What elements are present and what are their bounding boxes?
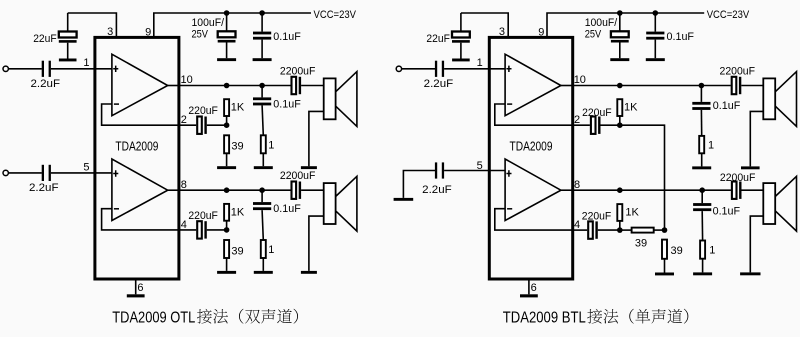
junction output/zobel (right ch1) <box>699 83 705 89</box>
ground speaker (right ch2) <box>740 272 760 275</box>
value label 2200uF (right ch2) <box>720 172 756 184</box>
wire 22uF top lead (UR) <box>460 13 462 32</box>
wire 100uF bottom lead (UL) <box>226 43 228 59</box>
ground 39 shunt (right) <box>655 273 674 276</box>
resistor 1K feedback (left ch2) <box>224 204 229 221</box>
wire input 2 to coupling cap (UL) <box>8 172 41 174</box>
svg-text:TDA2009: TDA2009 <box>115 140 158 154</box>
svg-text:22uF: 22uF <box>426 33 450 45</box>
wire 22uF top lead (UL) <box>67 13 69 32</box>
value label 1 ohm (right ch2) <box>709 244 715 256</box>
junction feedback node (left ch1) <box>224 122 230 128</box>
value label 1K (right ch1) <box>624 102 638 114</box>
wire output to zobel cap (right ch2) <box>701 190 703 203</box>
caption right latin part <box>503 309 586 326</box>
ground pin 6 (UR) <box>520 294 538 297</box>
wire op-amp A output to pin 10 (UL) <box>168 85 179 87</box>
junction output/zobel (left ch2) <box>259 187 265 193</box>
value label 220uF (right ch2) <box>582 211 612 223</box>
pin number 10 (UR) <box>574 74 586 86</box>
value label 22uF (UR) <box>426 33 450 45</box>
junction VCC rail / 100uF (UL) <box>224 10 230 16</box>
svg-text:0.1uF: 0.1uF <box>713 100 741 112</box>
value label 39 (left ch2) <box>231 245 243 257</box>
IC UL part label TDA2009 <box>115 140 158 154</box>
feedback wire op-amp B inverting input to pin 4 (UL) <box>102 209 179 230</box>
svg-text:1: 1 <box>83 57 89 69</box>
wire feedback pin to 220uF (left ch1) <box>179 124 196 126</box>
wire feedback node to BTL bridge (right ch1) <box>620 125 665 230</box>
value label 0.1uF zobel (right ch2) <box>713 205 741 217</box>
wire output to zobel cap (right ch1) <box>700 86 702 102</box>
wire 1 ohm to ground (right ch1) <box>701 153 703 166</box>
op-amp IC UL TDA2009 body <box>95 37 179 279</box>
wire 220uF to node (right ch1) <box>601 124 620 126</box>
ground pin 6 (UL) <box>127 294 145 297</box>
capacitor 22uF bootstrap (UR) <box>452 32 470 43</box>
wire zobel cap to 1 ohm (left ch2) <box>262 210 263 240</box>
junction output/1K (right ch1) <box>617 83 623 89</box>
svg-text:1: 1 <box>708 139 714 151</box>
wire zobel cap to 1 ohm (left ch1) <box>262 105 263 135</box>
svg-text:10: 10 <box>181 74 193 86</box>
caption left chinese part <box>197 309 298 324</box>
resistor 39 feedback shunt (left ch1) <box>224 135 229 153</box>
svg-text:VCC=23V: VCC=23V <box>707 9 750 21</box>
svg-text:22uF: 22uF <box>33 33 57 45</box>
capacitor 2.2uF input 2 coupling (UR) <box>435 162 444 178</box>
capacitor 0.1uF zobel (right ch2) <box>693 203 711 211</box>
capacitor 22uF bootstrap (UL) <box>59 32 77 43</box>
value label 0.1uF bypass (UL) <box>273 31 301 43</box>
op-amp ULB lower half <box>112 159 168 221</box>
wire op-amp B output to pin 8 (UL) <box>168 189 179 191</box>
IC UR part label TDA2009 <box>510 140 553 154</box>
wire pin 6 to ground (UL) <box>135 279 137 294</box>
wire pin 2 to 220uF (right ch1) <box>573 124 590 126</box>
svg-text:100uF/: 100uF/ <box>585 17 618 29</box>
svg-text:2.2uF: 2.2uF <box>422 184 452 196</box>
wire VCC rail from pin 9 (UL) <box>154 13 311 37</box>
svg-text:1: 1 <box>268 139 274 151</box>
pin number 6 (UL) <box>137 282 143 294</box>
wire 22uF bottom lead (UL) <box>67 43 69 59</box>
value label 1 ohm (left ch2) <box>268 244 274 256</box>
capacitor 220uF feedback (right ch2) <box>588 221 598 238</box>
wire coupling cap to pin 1 (UL) <box>51 68 112 70</box>
svg-text:9: 9 <box>538 27 544 39</box>
value label 0.1uF bypass (UR) <box>667 31 695 43</box>
ground 22uF (UR) <box>452 59 470 62</box>
ground 100uF (UR) <box>610 58 629 61</box>
value label 1 ohm (right ch1) <box>708 139 714 151</box>
wire grounded input 2 (UR) <box>403 171 435 198</box>
svg-text:3: 3 <box>107 26 113 38</box>
svg-text:1K: 1K <box>231 102 245 114</box>
wire feedback pin to 220uF (left ch2) <box>179 229 196 231</box>
value label 2200uF (left ch2) <box>280 170 316 182</box>
wire VCC rail from pin 9 (UR) <box>547 13 704 37</box>
ground BTL input 2 (UR) <box>394 198 414 201</box>
pin number 3 (UR) <box>499 26 505 38</box>
wire zobel cap to 1 ohm (right ch2) <box>701 211 703 240</box>
svg-text:1: 1 <box>268 244 274 256</box>
ground 1 ohm (right ch1) <box>692 166 711 169</box>
pin number 8 (UR) <box>574 179 580 191</box>
ground 22uF (UL) <box>59 59 77 62</box>
value label 100uF/ (UL) <box>192 17 225 29</box>
caption left latin part <box>112 309 195 326</box>
wire 1 ohm to ground (left ch2) <box>262 258 264 271</box>
junction output/zobel (right ch2) <box>699 187 705 193</box>
value label 22uF (UL) <box>33 33 57 45</box>
ground 39 resistor (left ch2) <box>217 271 236 274</box>
value label 2.2uF input 2 (UL) <box>29 182 59 194</box>
wire 0.1uF bypass bottom lead (UL) <box>261 40 263 59</box>
svg-text:220uF: 220uF <box>188 210 218 222</box>
pin number 4 (UL) <box>181 219 187 231</box>
capacitor 2.2uF input 2 coupling (UL) <box>42 165 51 181</box>
value label 220uF (left ch1) <box>188 105 218 117</box>
capacitor 100uF/25V supply filter (UL) <box>218 31 236 42</box>
pin number 1 (UL) <box>83 57 89 69</box>
value label 1 ohm (left ch1) <box>268 139 274 151</box>
ground 1 ohm (left ch1) <box>254 166 273 169</box>
capacitor 2200uF output coupling (left ch2) <box>292 182 302 199</box>
caption right chinese part <box>587 309 688 324</box>
svg-text:10: 10 <box>574 74 586 86</box>
resistor 39 feedback shunt (left ch2) <box>224 240 229 258</box>
junction VCC rail / 0.1uF (UL) <box>259 10 265 16</box>
capacitor 0.1uF zobel (left ch2) <box>253 202 271 210</box>
pin number 5 (UL) <box>83 161 89 173</box>
value label 1K (left ch1) <box>231 102 245 114</box>
svg-text:VCC=23V: VCC=23V <box>314 9 357 21</box>
capacitor 0.1uF zobel (right ch1) <box>692 102 710 110</box>
wire coupling cap to pin 5 (UL) <box>51 172 112 174</box>
value label 2.2uF input 2 (UR) <box>422 184 452 196</box>
wire output to zobel cap (left ch2) <box>261 190 263 202</box>
wire 1K bottom to node (right ch2) <box>619 221 621 230</box>
value label 2200uF (right ch1) <box>720 66 756 78</box>
svg-text:TDA2009 BTL: TDA2009 BTL <box>503 309 586 326</box>
wire 100uF bottom lead (UR) <box>619 43 621 59</box>
svg-text:5: 5 <box>83 161 89 173</box>
svg-text:6: 6 <box>137 282 143 294</box>
op-amp URA upper half <box>505 54 561 115</box>
speaker (right ch1) <box>763 72 796 127</box>
wire op-amp A output to pin 10 (UR) <box>561 85 573 87</box>
value label 2200uF (left ch1) <box>280 66 316 78</box>
wire speaker return (right ch1) <box>750 111 763 166</box>
wire 220uF to node (left ch2) <box>207 229 227 231</box>
input terminal IN2 (UL) <box>3 170 8 175</box>
wire 22uF to pin 3 rail (UL) <box>68 13 117 37</box>
pin number 2 (UR) <box>574 114 580 126</box>
wire 22uF to pin 3 rail (UR) <box>461 13 508 37</box>
pin number 4 (UR) <box>574 219 580 231</box>
svg-text:1K: 1K <box>625 207 639 219</box>
wire 100uF top lead (UR) <box>619 13 621 31</box>
resistor 1 ohm zobel (left ch1) <box>261 135 266 153</box>
svg-text:2.2uF: 2.2uF <box>424 78 454 90</box>
capacitor 100uF/25V supply filter (UR) <box>611 31 629 42</box>
capacitor 2200uF output coupling (right ch1) <box>732 77 742 94</box>
svg-text:6: 6 <box>531 282 537 294</box>
ground 39 resistor (left ch1) <box>217 166 236 169</box>
svg-text:2.2uF: 2.2uF <box>29 182 59 194</box>
resistor 1K feedback (right ch2) <box>617 204 622 221</box>
wire 1K bottom to node (right ch1) <box>619 116 621 125</box>
wire speaker return (left ch2) <box>309 216 324 271</box>
feedback wire op-amp A inverting input to pin 2 (UR) <box>495 104 573 125</box>
svg-text:5: 5 <box>477 160 483 172</box>
capacitor 220uF feedback (left ch2) <box>197 221 207 238</box>
wire pin 8 output rail (right ch2) <box>573 189 731 191</box>
net label VCC=23V (UR) <box>707 9 750 21</box>
wire output pin to 2200uF (left ch1) <box>179 85 291 87</box>
capacitor 2200uF output coupling (right ch2) <box>732 182 742 199</box>
net label VCC=23V (UL) <box>314 9 357 21</box>
svg-text:0.1uF: 0.1uF <box>273 31 301 43</box>
wire coupling cap to pin 5 (UR) <box>444 170 505 172</box>
svg-text:1: 1 <box>477 57 483 69</box>
svg-text:9: 9 <box>145 27 151 39</box>
junction output/1K (left ch1) <box>224 83 230 89</box>
svg-text:TDA2009 OTL: TDA2009 OTL <box>112 309 195 326</box>
op-amp IC UR TDA2009 body <box>489 37 572 279</box>
resistor 1 ohm zobel (left ch2) <box>261 240 266 258</box>
svg-text:25V: 25V <box>192 28 209 40</box>
wire 0.1uF bypass bottom lead (UR) <box>654 40 656 59</box>
junction feedback node (left ch2) <box>224 227 230 233</box>
svg-text:1: 1 <box>709 244 715 256</box>
resistor 39 series BTL (right ch2) <box>632 228 654 233</box>
capacitor 220uF feedback (left ch1) <box>197 117 207 134</box>
resistor 1 ohm zobel (right ch2) <box>700 241 705 259</box>
value label 0.1uF zobel (right ch1) <box>713 100 741 112</box>
capacitor 0.1uF supply bypass (UR) <box>646 32 664 40</box>
wire 2200uF to speaker (right ch1) <box>741 85 763 87</box>
junction feedback node (right ch2) <box>617 227 623 233</box>
capacitor 0.1uF zobel (left ch1) <box>253 97 271 105</box>
wire input 1 to coupling cap (UL) <box>8 68 41 70</box>
svg-text:0.1uF: 0.1uF <box>713 205 741 217</box>
value label 2.2uF input 1 (UL) <box>31 78 61 90</box>
ground 0.1uF bypass (UR) <box>646 58 665 61</box>
value label 1K (right ch2) <box>625 207 639 219</box>
wire 39 shunt to ground <box>664 259 666 273</box>
svg-text:39: 39 <box>231 141 243 153</box>
pin number 2 (UL) <box>181 114 187 126</box>
wire 2200uF to speaker (right ch2) <box>742 189 764 191</box>
svg-text:0.1uF: 0.1uF <box>273 98 301 110</box>
wire 2200uF to speaker (left ch1) <box>301 85 324 87</box>
wire zobel cap to 1 ohm (right ch1) <box>700 110 702 136</box>
value label 2.2uF input 1 (UR) <box>424 78 454 90</box>
svg-text:0.1uF: 0.1uF <box>667 31 695 43</box>
wire 2200uF to speaker (left ch2) <box>301 189 324 191</box>
svg-text:39: 39 <box>671 245 683 257</box>
value label 220uF (left ch2) <box>188 210 218 222</box>
svg-text:25V: 25V <box>585 28 602 40</box>
value label 220uF (right ch1) <box>582 107 612 119</box>
op-amp ULA upper half <box>112 54 168 115</box>
svg-text:2.2uF: 2.2uF <box>31 78 61 90</box>
svg-text:2200uF: 2200uF <box>720 66 756 78</box>
input terminal IN1 (UR) <box>396 66 401 71</box>
wire speaker return (right ch2) <box>750 216 763 272</box>
pin number 9 (UL) <box>145 27 151 39</box>
svg-text:2200uF: 2200uF <box>280 170 316 182</box>
pin number 6 (UR) <box>531 282 537 294</box>
value label 25V (UR) <box>585 28 602 40</box>
wire output to zobel cap (left ch1) <box>261 86 263 98</box>
svg-text:TDA2009: TDA2009 <box>510 140 553 154</box>
svg-text:1K: 1K <box>624 102 638 114</box>
wire op-amp B output to pin 8 (UR) <box>561 189 573 191</box>
resistor 1K feedback (right ch1) <box>617 99 622 116</box>
wire 0.1uF bypass top lead (UL) <box>261 13 263 32</box>
wire 220uF to node (right ch2) <box>598 229 620 231</box>
junction VCC rail / 100uF (UR) <box>617 10 623 16</box>
ground speaker (left ch2) <box>301 271 317 274</box>
feedback wire op-amp A inverting input to pin 2 (UL) <box>102 104 179 125</box>
svg-text:220uF: 220uF <box>582 211 612 223</box>
ground 1 ohm (right ch2) <box>693 272 712 275</box>
junction feedback node (right ch1) <box>617 122 623 128</box>
svg-text:220uF: 220uF <box>582 107 612 119</box>
wire pin 10 output rail (right ch1) <box>573 85 731 87</box>
svg-text:220uF: 220uF <box>188 105 218 117</box>
wire node to 39 series (right ch2) <box>620 229 632 231</box>
speaker (right ch2) <box>763 176 796 231</box>
value label 39 series (right ch2) <box>635 237 647 249</box>
capacitor 220uF feedback (right ch1) <box>591 117 601 134</box>
ground 1 ohm (left ch2) <box>254 271 273 274</box>
svg-text:2200uF: 2200uF <box>720 172 756 184</box>
junction output/zobel (left ch1) <box>259 83 265 89</box>
wire 220uF to node (left ch1) <box>207 124 227 126</box>
pin number 9 (UR) <box>538 27 544 39</box>
capacitor 2200uF output coupling (left ch1) <box>292 77 302 94</box>
wire speaker return (left ch1) <box>309 111 324 166</box>
wire 1 ohm to ground (right ch2) <box>702 259 704 273</box>
resistor 1K feedback (left ch1) <box>224 99 229 116</box>
wire pin 4 to 220uF (right ch2) <box>573 229 588 231</box>
ground speaker (right ch1) <box>741 166 760 169</box>
junction BTL bridge node <box>662 227 668 233</box>
svg-text:100uF/: 100uF/ <box>192 17 225 29</box>
ground speaker (left ch1) <box>301 166 317 169</box>
wire 39 to ground (left ch2) <box>226 258 228 271</box>
svg-text:1K: 1K <box>231 206 245 218</box>
wire 39 to ground (left ch1) <box>226 153 228 166</box>
junction output/1K (right ch2) <box>617 187 623 193</box>
junction output/1K (left ch2) <box>224 187 230 193</box>
wire 1K bottom to node (left ch2) <box>226 221 228 230</box>
svg-text:0.1uF: 0.1uF <box>273 203 301 215</box>
wire 100uF top lead (UL) <box>226 13 228 31</box>
svg-text:39: 39 <box>231 245 243 257</box>
capacitor 2.2uF input 1 coupling (UL) <box>42 61 51 77</box>
value label 0.1uF zobel (left ch1) <box>273 98 301 110</box>
pin number 1 (UR) <box>477 57 483 69</box>
wire input 1 to coupling cap (UR) <box>402 68 435 70</box>
pin number 3 (UL) <box>107 26 113 38</box>
svg-text:3: 3 <box>499 26 505 38</box>
pin number 5 (UR) <box>477 160 483 172</box>
pin number 8 (UL) <box>181 179 187 191</box>
wire 1 ohm to ground (left ch1) <box>262 153 264 166</box>
op-amp URB lower half <box>505 159 561 221</box>
pin number 10 (UL) <box>181 74 193 86</box>
value label 0.1uF zobel (left ch2) <box>273 203 301 215</box>
resistor 1 ohm zobel (right ch1) <box>699 136 704 153</box>
value label 100uF/ (UR) <box>585 17 618 29</box>
input terminal IN1 (UL) <box>3 66 8 71</box>
ground 0.1uF bypass (UL) <box>253 58 272 61</box>
wire 1K bottom to node (left ch1) <box>226 116 228 125</box>
svg-text:39: 39 <box>635 237 647 249</box>
speaker (left ch2) <box>324 176 357 231</box>
speaker (left ch1) <box>324 72 357 127</box>
wire 0.1uF bypass top lead (UR) <box>654 13 656 32</box>
resistor 39 shunt BTL <box>662 240 667 259</box>
svg-text:8: 8 <box>574 179 580 191</box>
capacitor 0.1uF supply bypass (UL) <box>253 32 271 40</box>
wire coupling cap to pin 1 (UR) <box>444 68 505 70</box>
value label 39 shunt <box>671 245 683 257</box>
ground 100uF (UL) <box>217 58 236 61</box>
value label 1K (left ch2) <box>231 206 245 218</box>
value label 39 (left ch1) <box>231 141 243 153</box>
wire pin 6 to ground (UR) <box>528 279 530 294</box>
wire output pin to 2200uF (left ch2) <box>179 189 291 191</box>
value label 25V (UL) <box>192 28 209 40</box>
wire 39 series to bridge node (right ch2) <box>654 229 665 231</box>
junction VCC rail / 0.1uF (UR) <box>653 10 659 16</box>
wire 22uF bottom lead (UR) <box>460 43 462 59</box>
svg-text:8: 8 <box>181 179 187 191</box>
svg-text:2200uF: 2200uF <box>280 66 316 78</box>
feedback wire op-amp B inverting input to pin 4 (UR) <box>495 209 573 230</box>
capacitor 2.2uF input 1 coupling (UR) <box>435 61 444 77</box>
